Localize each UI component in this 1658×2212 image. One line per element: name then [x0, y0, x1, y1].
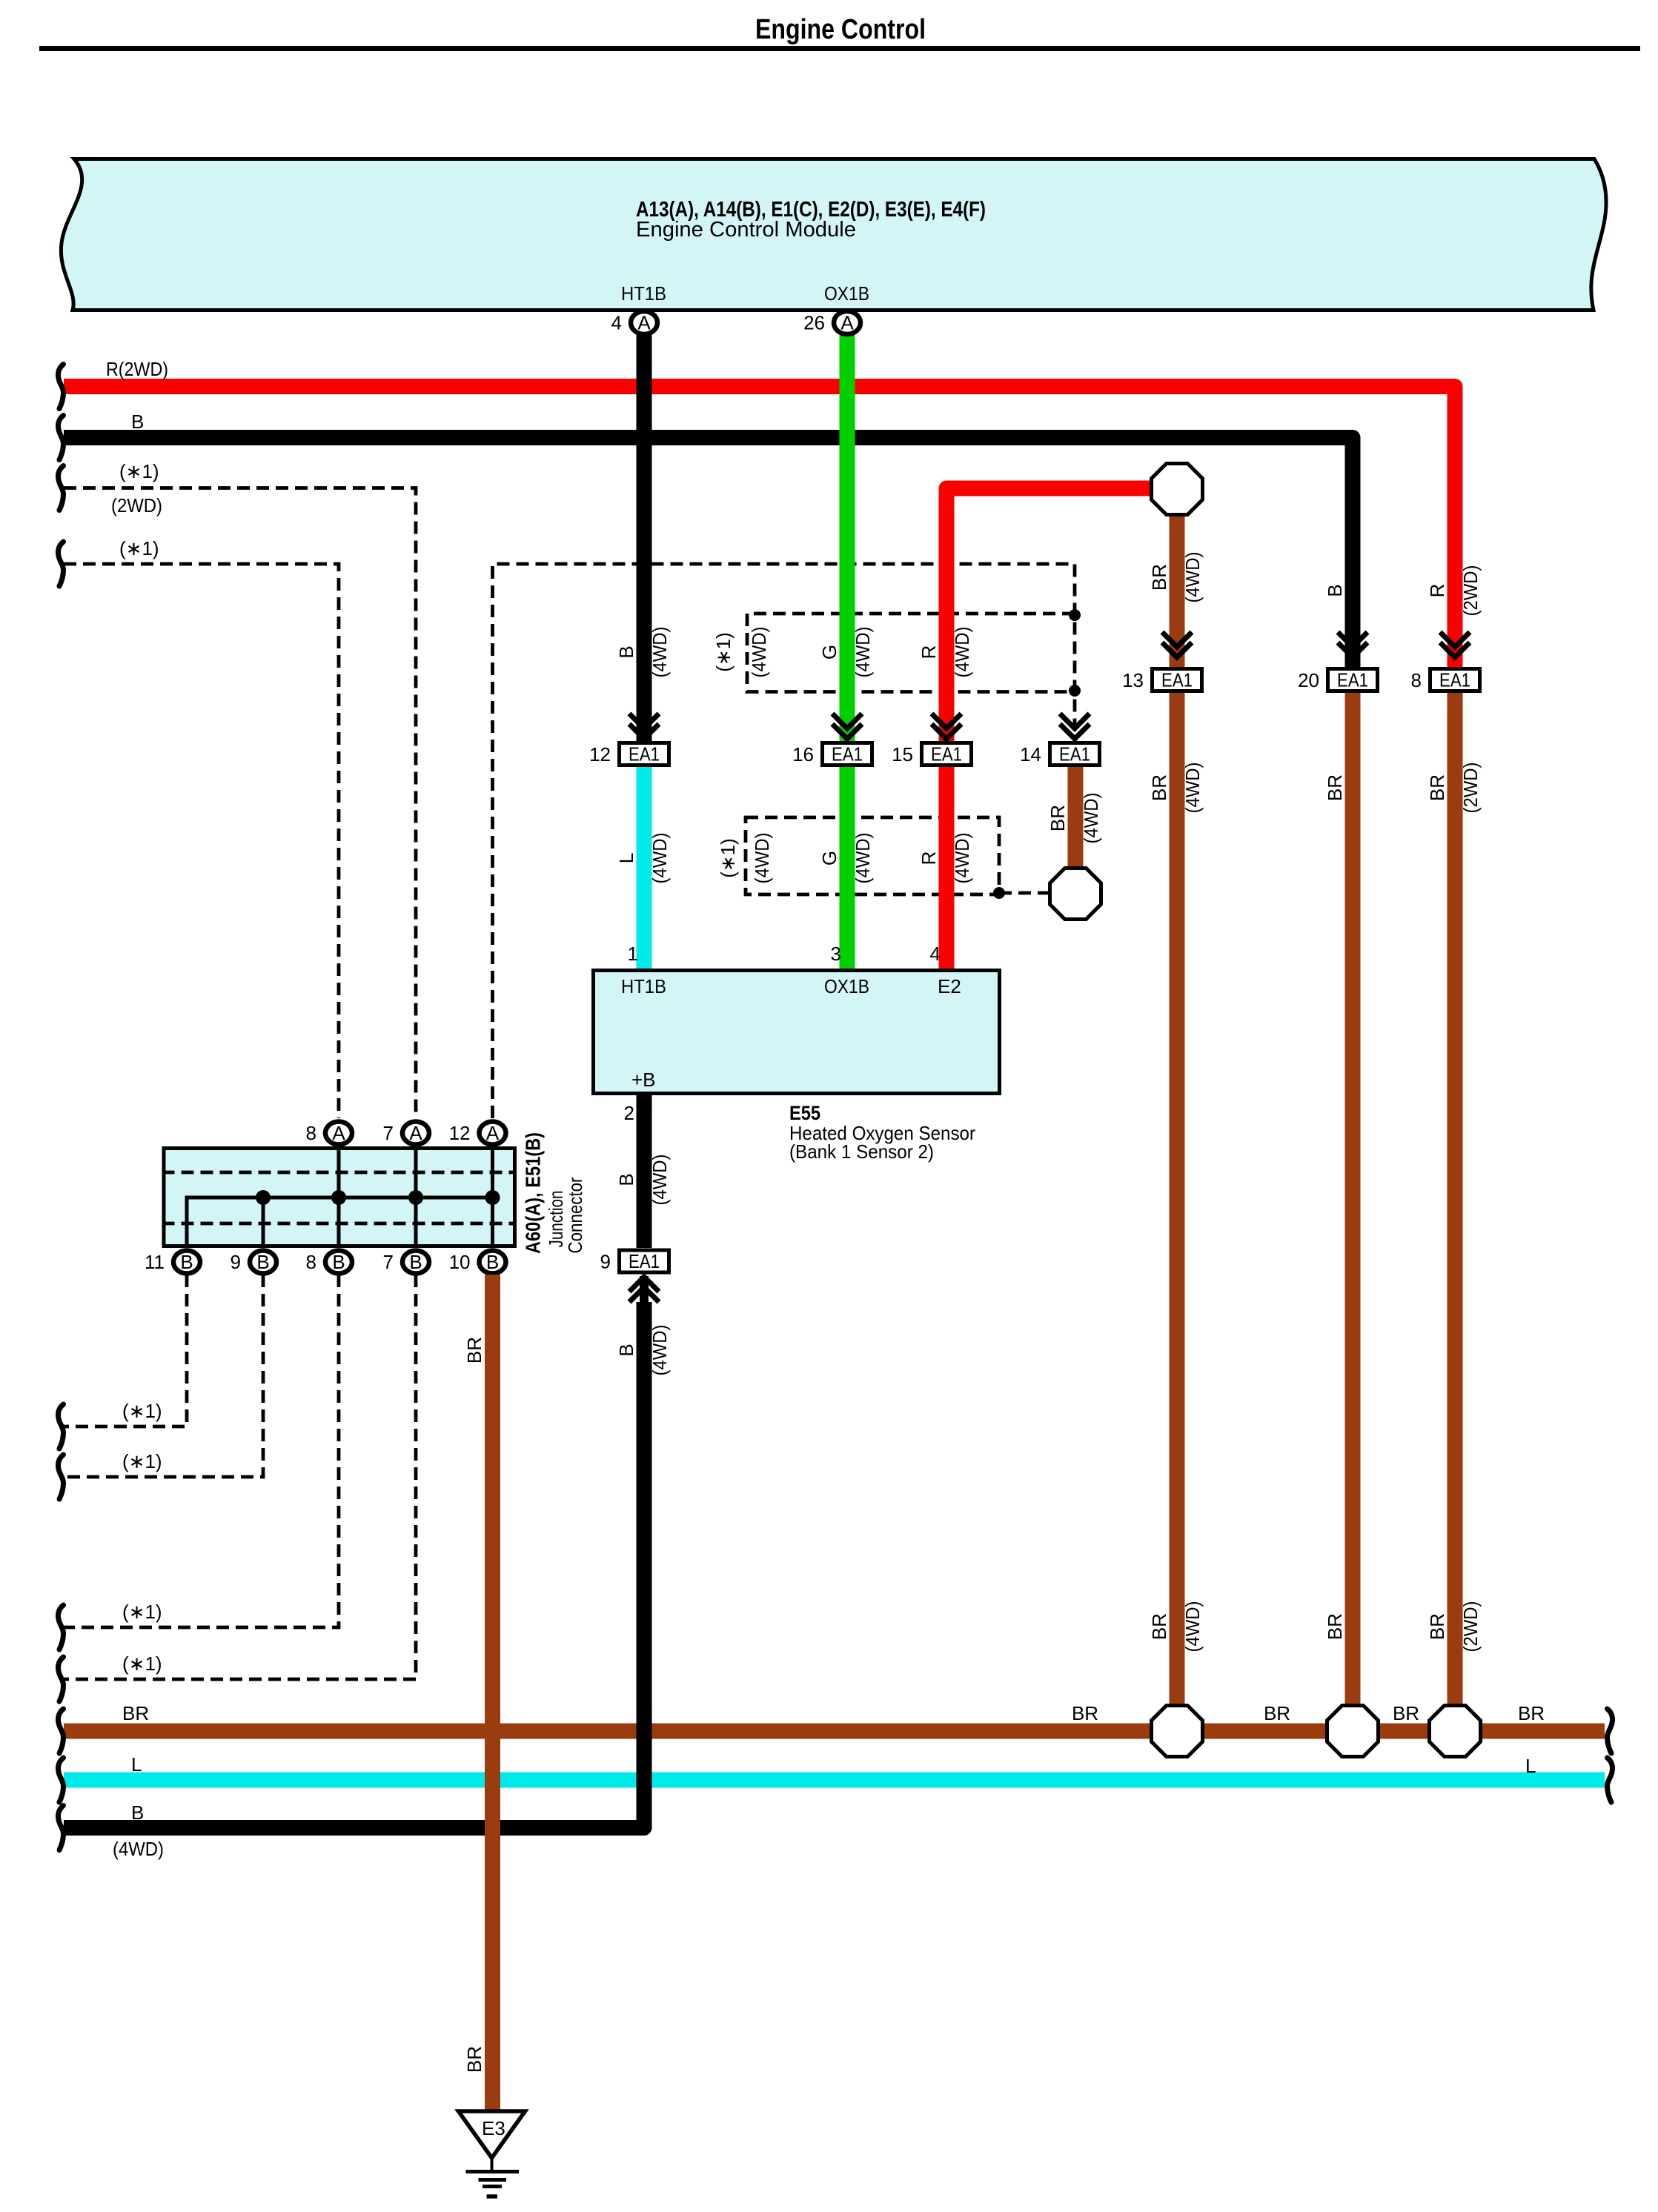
wire R(4WD) red to 15 EA1 — [918, 488, 1150, 743]
svg-text:R: R — [1426, 584, 1448, 598]
svg-text:E55: E55 — [789, 1102, 820, 1124]
svg-text:3: 3 — [831, 943, 841, 965]
wire BR 20 EA1 to bus octagon — [1324, 693, 1353, 1712]
svg-text:2: 2 — [624, 1102, 634, 1124]
svg-text:BR: BR — [1426, 774, 1448, 801]
dashed box (*1)(4WD) upper — [712, 614, 1075, 692]
svg-text:EA1: EA1 — [1161, 669, 1193, 691]
svg-text:Engine Control: Engine Control — [755, 14, 926, 45]
svg-text:(4WD): (4WD) — [951, 833, 973, 884]
junction pin 10(B) — [449, 1251, 506, 1274]
junction pin 9(B) — [231, 1251, 276, 1274]
arrow into 12 EA1 — [629, 714, 659, 739]
svg-text:(∗1): (∗1) — [122, 1601, 162, 1623]
wire L(4WD) 12 EA1 to E55 pin 1 — [615, 767, 671, 971]
arrow into 13 EA1 — [1162, 632, 1192, 657]
junction pin 8(B) — [306, 1251, 352, 1274]
ground E3 — [459, 2111, 525, 2196]
svg-text:B: B — [615, 645, 637, 658]
svg-text:BR: BR — [1148, 1613, 1170, 1640]
svg-text:(Bank 1 Sensor 2): (Bank 1 Sensor 2) — [789, 1140, 934, 1163]
wire BR(2WD) 8 EA1 to bus octagon — [1426, 693, 1482, 1712]
svg-text:G: G — [818, 645, 840, 660]
svg-text:B: B — [131, 411, 144, 433]
svg-text:EA1: EA1 — [1059, 743, 1090, 765]
ECM pin 26(A) OX1B — [803, 311, 860, 334]
svg-text:B: B — [131, 1801, 144, 1824]
svg-text:8: 8 — [306, 1251, 316, 1273]
svg-text:12: 12 — [589, 743, 611, 765]
connector 9 EA1 — [600, 1250, 669, 1273]
svg-text:10: 10 — [449, 1251, 471, 1273]
svg-text:(∗1): (∗1) — [122, 1653, 162, 1675]
svg-text:(∗1): (∗1) — [717, 838, 739, 878]
connector 13 EA1 — [1122, 669, 1201, 692]
svg-text:(4WD): (4WD) — [649, 1155, 671, 1206]
wire BR ground bus — [58, 1702, 1612, 1753]
svg-text:HT1B: HT1B — [621, 282, 666, 305]
svg-text:L: L — [615, 853, 637, 863]
svg-text:BR: BR — [1324, 1613, 1346, 1640]
dashed wire (*1) from pin 7B — [58, 1275, 416, 1701]
dashed wire (*1) from pin 11B — [58, 1275, 187, 1449]
svg-text:BR: BR — [1148, 564, 1170, 591]
svg-text:(4WD): (4WD) — [649, 627, 671, 678]
svg-text:(4WD): (4WD) — [1080, 793, 1102, 844]
wire L bus — [58, 1753, 1612, 1802]
junction pin 7(B) — [383, 1251, 429, 1274]
svg-text:OX1B: OX1B — [824, 975, 869, 997]
wire B(4WD) down and left — [58, 1302, 671, 1860]
svg-text:EA1: EA1 — [629, 1250, 660, 1272]
svg-text:(∗1): (∗1) — [119, 460, 159, 482]
wire BR from pin 10B to ground — [463, 1275, 493, 2110]
svg-text:EA1: EA1 — [629, 743, 660, 765]
E55 Heated Oxygen Sensor box — [594, 943, 1000, 1163]
svg-text:13: 13 — [1122, 669, 1144, 691]
svg-text:B: B — [409, 1251, 422, 1273]
svg-text:BR: BR — [1148, 774, 1170, 801]
svg-text:9: 9 — [231, 1251, 241, 1273]
svg-text:(∗1): (∗1) — [712, 632, 735, 672]
svg-text:B: B — [486, 1251, 499, 1273]
wire B(4WD) from pin 4A — [615, 333, 671, 743]
svg-text:11: 11 — [145, 1251, 165, 1273]
svg-text:R: R — [918, 645, 940, 660]
svg-text:7: 7 — [383, 1251, 394, 1273]
svg-text:(2WD): (2WD) — [1459, 1601, 1482, 1653]
svg-text:EA1: EA1 — [931, 743, 962, 765]
junction pin 8(A) — [306, 1122, 352, 1145]
ECM module box A13(A), A14(B), E1(C), E2(D), E3(E), E4(F) Engine Control Module — [61, 159, 1606, 310]
svg-text:R: R — [918, 851, 940, 866]
svg-text:BR: BR — [463, 2046, 485, 2073]
svg-text:(4WD): (4WD) — [113, 1838, 164, 1860]
arrow into 20 EA1 — [1338, 632, 1367, 657]
svg-text:12: 12 — [449, 1122, 471, 1144]
svg-text:G: G — [818, 851, 840, 866]
svg-text:15: 15 — [892, 743, 913, 765]
svg-text:Connector: Connector — [564, 1177, 586, 1253]
title rule — [39, 46, 1640, 51]
svg-text:+B: +B — [631, 1069, 656, 1091]
junction dot at box corner — [993, 887, 1005, 899]
svg-text:(4WD): (4WD) — [852, 833, 874, 884]
wire B black to 20 EA1 — [58, 411, 1353, 668]
svg-text:A60(A), E51(B): A60(A), E51(B) — [522, 1132, 545, 1254]
dashed wire (*1) to pin 8A — [58, 537, 339, 1118]
dashed box (*1)(4WD) lower — [717, 817, 999, 894]
svg-text:4: 4 — [930, 943, 941, 965]
svg-text:BR: BR — [122, 1702, 149, 1724]
wire BR(4WD) 14 EA1 to octagon — [1047, 767, 1102, 874]
arrow into 15 EA1 — [932, 714, 961, 739]
svg-text:8: 8 — [306, 1122, 316, 1144]
junction dot lower right — [1069, 685, 1081, 697]
svg-text:B: B — [615, 1173, 637, 1186]
connector 12 EA1 — [589, 743, 669, 766]
connector 15 EA1 — [892, 743, 971, 766]
junction dot upper right — [1069, 609, 1081, 621]
svg-text:A: A — [637, 312, 651, 334]
wire BR(4WD) octagon to 13 EA1 — [1148, 504, 1204, 668]
svg-text:(4WD): (4WD) — [1181, 763, 1204, 814]
svg-text:Engine Control Module: Engine Control Module — [636, 218, 856, 242]
svg-text:B: B — [615, 1344, 637, 1356]
octagon connector bus mid — [1327, 1706, 1379, 1757]
svg-text:(2WD): (2WD) — [111, 494, 162, 517]
svg-text:BR: BR — [1393, 1702, 1419, 1724]
dashed wire (*1)(2WD) to pin 7A — [58, 460, 416, 1118]
junction connector A60(A), E51(B) — [162, 1132, 587, 1254]
svg-text:(4WD): (4WD) — [1181, 1601, 1204, 1653]
svg-text:B: B — [1324, 584, 1346, 597]
wire BR(4WD) 13 EA1 to bus octagon — [1148, 693, 1204, 1712]
octagon connector bus right — [1430, 1706, 1481, 1757]
svg-text:(∗1): (∗1) — [119, 537, 159, 559]
svg-text:7: 7 — [383, 1122, 394, 1144]
wire G(4WD) 16 EA1 to E55 pin 3 — [818, 767, 874, 971]
svg-text:(2WD): (2WD) — [1459, 763, 1482, 814]
dashed wire (*1) from pin 9B — [58, 1275, 263, 1499]
svg-text:BR: BR — [1047, 805, 1069, 831]
octagon connector bus left — [1152, 1706, 1203, 1757]
svg-text:20: 20 — [1298, 669, 1319, 691]
svg-text:(4WD): (4WD) — [649, 1325, 671, 1376]
junction pin 11(B) — [145, 1251, 200, 1274]
svg-text:HT1B: HT1B — [621, 975, 666, 997]
arrow into 14 EA1 — [1060, 714, 1090, 739]
svg-text:L: L — [1525, 1755, 1536, 1777]
svg-text:(∗1): (∗1) — [122, 1400, 162, 1422]
ECM pin 4(A) HT1B — [611, 311, 657, 334]
svg-text:(4WD): (4WD) — [1181, 552, 1204, 603]
arrow out of 9 EA1 — [629, 1276, 659, 1306]
svg-text:R(2WD): R(2WD) — [106, 358, 168, 380]
svg-text:14: 14 — [1020, 743, 1041, 765]
dashed wire (*1) from pin 8B — [58, 1275, 339, 1650]
svg-text:E2: E2 — [938, 975, 961, 997]
junction pin 7(A) — [383, 1122, 429, 1145]
svg-text:(4WD): (4WD) — [649, 833, 671, 884]
arrow into 16 EA1 — [832, 714, 862, 739]
connector 16 EA1 — [792, 743, 872, 766]
svg-text:BR: BR — [1324, 774, 1346, 801]
svg-text:EA1: EA1 — [1337, 669, 1368, 691]
svg-text:B: B — [180, 1251, 193, 1273]
dashed wire from pin 12A to 14 EA1 — [493, 564, 1075, 1118]
svg-text:A: A — [486, 1122, 500, 1144]
svg-text:9: 9 — [600, 1251, 611, 1273]
svg-text:26: 26 — [803, 312, 825, 334]
svg-text:(4WD): (4WD) — [748, 627, 770, 678]
connector 20 EA1 — [1298, 669, 1377, 692]
svg-text:BR: BR — [1072, 1702, 1098, 1724]
svg-text:A: A — [840, 312, 854, 334]
svg-text:(4WD): (4WD) — [852, 627, 874, 678]
svg-text:B: B — [332, 1251, 345, 1273]
svg-text:BR: BR — [1264, 1702, 1290, 1724]
svg-text:4: 4 — [611, 312, 622, 334]
svg-text:OX1B: OX1B — [824, 282, 869, 305]
svg-text:BR: BR — [1518, 1702, 1545, 1724]
svg-text:A: A — [332, 1122, 345, 1144]
wire R(2WD) red to 8 EA1 — [58, 358, 1482, 668]
connector 8 EA1 — [1411, 669, 1480, 692]
svg-text:EA1: EA1 — [832, 743, 863, 765]
svg-text:1: 1 — [628, 943, 638, 965]
svg-text:(4WD): (4WD) — [751, 833, 773, 884]
dashed link to octagon — [999, 891, 1048, 895]
svg-text:(∗1): (∗1) — [122, 1450, 162, 1472]
svg-text:A: A — [409, 1122, 422, 1144]
wire B(4WD) from E55 +B pin 2 — [615, 1095, 671, 1248]
arrow into 8 EA1 — [1440, 632, 1470, 657]
svg-text:B: B — [256, 1251, 269, 1273]
wire R(4WD) 15 EA1 to E55 pin 4 — [918, 767, 973, 971]
svg-text:8: 8 — [1411, 669, 1422, 691]
octagon connector top — [1152, 464, 1203, 515]
junction pin 12(A) — [449, 1122, 506, 1145]
svg-text:L: L — [131, 1753, 142, 1776]
svg-text:16: 16 — [792, 743, 814, 765]
svg-text:(4WD): (4WD) — [951, 627, 973, 678]
svg-text:BR: BR — [463, 1337, 485, 1364]
wire G(4WD) from pin 26A — [818, 333, 874, 743]
svg-text:(2WD): (2WD) — [1459, 565, 1482, 617]
octagon connector mid — [1050, 868, 1101, 920]
svg-text:BR: BR — [1426, 1613, 1448, 1640]
svg-text:E3: E3 — [482, 2117, 505, 2139]
svg-text:EA1: EA1 — [1439, 669, 1470, 691]
connector 14 EA1 — [1020, 743, 1099, 766]
